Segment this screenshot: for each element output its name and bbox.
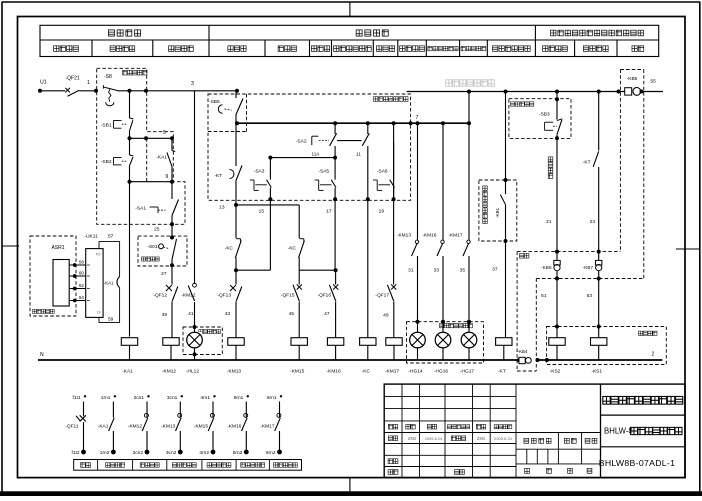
svg-text:DI: DI: [97, 311, 100, 315]
svg-text:-KT: -KT: [583, 160, 591, 166]
svg-text:25: 25: [154, 227, 160, 233]
svg-text:23: 23: [590, 219, 596, 225]
svg-text:-KM16: -KM16: [327, 369, 341, 375]
svg-text:17: 17: [326, 209, 332, 215]
svg-text:-UK11: -UK11: [85, 234, 99, 240]
svg-text:-KA1: -KA1: [122, 369, 133, 375]
svg-text:41: 41: [188, 311, 194, 317]
svg-text:3cn2: 3cn2: [166, 450, 177, 456]
svg-text:5: 5: [163, 130, 166, 136]
svg-text:11A: 11A: [312, 152, 321, 157]
svg-text:-KB4: -KB4: [518, 349, 528, 354]
svg-text:ZKB: ZKB: [477, 436, 485, 441]
svg-text:60: 60: [79, 271, 85, 276]
svg-text:19: 19: [379, 209, 385, 215]
svg-text:-SA3: -SA3: [254, 169, 265, 175]
svg-text:-KC: -KC: [362, 369, 371, 375]
svg-text:-S8: -S8: [104, 74, 112, 80]
svg-text:47: 47: [324, 311, 330, 317]
svg-text:57: 57: [108, 234, 114, 240]
svg-text:-KM16: -KM16: [422, 233, 436, 239]
svg-text:-KM17: -KM17: [385, 369, 399, 375]
svg-text:ASR1: ASR1: [51, 245, 64, 251]
svg-text:-KB1: -KB1: [495, 207, 500, 218]
svg-text:-KM15: -KM15: [290, 369, 304, 375]
svg-text:7: 7: [416, 115, 419, 121]
svg-text:-KA1: -KA1: [156, 155, 167, 161]
svg-text:-HG14: -HG14: [408, 369, 422, 375]
svg-text:39: 39: [162, 312, 168, 318]
svg-text:27: 27: [161, 271, 167, 277]
svg-text:31: 31: [408, 268, 414, 274]
svg-text:59: 59: [108, 317, 114, 323]
svg-text:5rn1: 5rn1: [234, 395, 244, 401]
svg-text:2cn2: 2cn2: [133, 450, 144, 456]
svg-text:-QF17: -QF17: [375, 293, 389, 299]
svg-text:-KM17: -KM17: [260, 424, 274, 430]
svg-text:9: 9: [166, 174, 169, 180]
svg-text:-KM13: -KM13: [227, 369, 241, 375]
svg-text:-KS2: -KS2: [550, 369, 561, 375]
svg-text:-SA6: -SA6: [377, 169, 388, 175]
svg-text:-KM17: -KM17: [448, 233, 462, 239]
svg-text:ZKB: ZKB: [408, 436, 416, 441]
svg-text:-HL12: -HL12: [186, 369, 199, 375]
svg-text:2: 2: [652, 352, 655, 358]
svg-text:-KB5: -KB5: [627, 76, 638, 82]
svg-text:-KA1: -KA1: [104, 281, 114, 286]
svg-text:-KM12: -KM12: [128, 424, 142, 430]
svg-text:45: 45: [289, 311, 295, 317]
svg-text:-SB5: -SB5: [209, 99, 220, 105]
svg-text:-QF21: -QF21: [66, 76, 80, 82]
svg-text:-SB2: -SB2: [101, 159, 112, 165]
svg-text:-KM16: -KM16: [227, 424, 241, 430]
svg-text:58: 58: [79, 260, 85, 265]
svg-text:BHLW8B-07ADL-1: BHLW8B-07ADL-1: [599, 458, 675, 468]
svg-text:N: N: [40, 352, 44, 358]
svg-text:-SB1: -SB1: [101, 122, 112, 128]
svg-text:15: 15: [259, 209, 265, 215]
svg-text:6rn1: 6rn1: [267, 395, 277, 401]
svg-text:-KC: -KC: [288, 246, 297, 252]
svg-text:PO: PO: [96, 253, 101, 257]
svg-text:-KB7: -KB7: [583, 265, 594, 270]
svg-text:-KM13: -KM13: [397, 233, 411, 239]
svg-text:21: 21: [546, 219, 552, 225]
svg-text:U1: U1: [40, 80, 47, 86]
svg-text:-QF12: -QF12: [153, 293, 167, 299]
svg-text:64: 64: [79, 295, 85, 300]
svg-text:51: 51: [541, 293, 547, 299]
svg-text:-QF15: -QF15: [281, 293, 295, 299]
svg-text:-KM12: -KM12: [181, 293, 195, 299]
svg-text:62: 62: [79, 283, 85, 288]
svg-text:13: 13: [219, 205, 225, 211]
svg-text:53: 53: [587, 293, 593, 299]
svg-text:2005.6.24: 2005.6.24: [425, 436, 444, 441]
svg-text:37: 37: [492, 267, 498, 273]
svg-text:-KS1: -KS1: [591, 369, 602, 375]
svg-text:3cn1: 3cn1: [167, 395, 178, 401]
svg-text:-QF11: -QF11: [65, 424, 79, 430]
svg-text:11: 11: [356, 152, 361, 157]
svg-text:4rn1: 4rn1: [200, 395, 210, 401]
svg-text:43: 43: [225, 311, 231, 317]
svg-text:35: 35: [460, 268, 466, 274]
svg-text:f1t1: f1t1: [72, 395, 80, 401]
svg-text:-KA1: -KA1: [98, 424, 109, 430]
svg-text:2005.6.24: 2005.6.24: [494, 436, 513, 441]
svg-text:BHLW-8: BHLW-8: [604, 427, 633, 436]
svg-text:-KM15: -KM15: [194, 424, 208, 430]
svg-text:3: 3: [191, 81, 194, 87]
svg-text:-KC: -KC: [225, 246, 234, 252]
svg-text:-HG17: -HG17: [460, 369, 474, 375]
svg-text:6rn2: 6rn2: [266, 450, 276, 456]
svg-text:-KT: -KT: [214, 173, 222, 179]
svg-text:4rn2: 4rn2: [199, 450, 209, 456]
svg-text:33: 33: [434, 268, 440, 274]
svg-text:-QF13: -QF13: [217, 293, 231, 299]
svg-text:-KT: -KT: [498, 369, 506, 375]
svg-text:1rn1: 1rn1: [101, 395, 111, 401]
svg-text:-KM13: -KM13: [161, 424, 175, 430]
svg-text:1rn2: 1rn2: [100, 450, 110, 456]
svg-text:-KB6: -KB6: [541, 265, 552, 270]
svg-text:-HG16: -HG16: [434, 369, 448, 375]
svg-text:-SB3: -SB3: [539, 112, 550, 118]
svg-text:5rn2: 5rn2: [233, 450, 243, 456]
svg-text:f1t2: f1t2: [71, 450, 79, 456]
svg-text:-SA1: -SA1: [135, 206, 146, 212]
svg-text:-QF16: -QF16: [317, 293, 331, 299]
svg-text:-S01: -S01: [147, 244, 157, 250]
svg-text:2cn1: 2cn1: [134, 395, 145, 401]
svg-text:-SA5: -SA5: [318, 169, 329, 175]
svg-text:1: 1: [87, 80, 90, 86]
svg-text:55: 55: [651, 79, 657, 85]
svg-text:-SA2: -SA2: [296, 139, 307, 145]
svg-text:49: 49: [383, 313, 389, 319]
svg-text:-KM12: -KM12: [162, 369, 176, 375]
